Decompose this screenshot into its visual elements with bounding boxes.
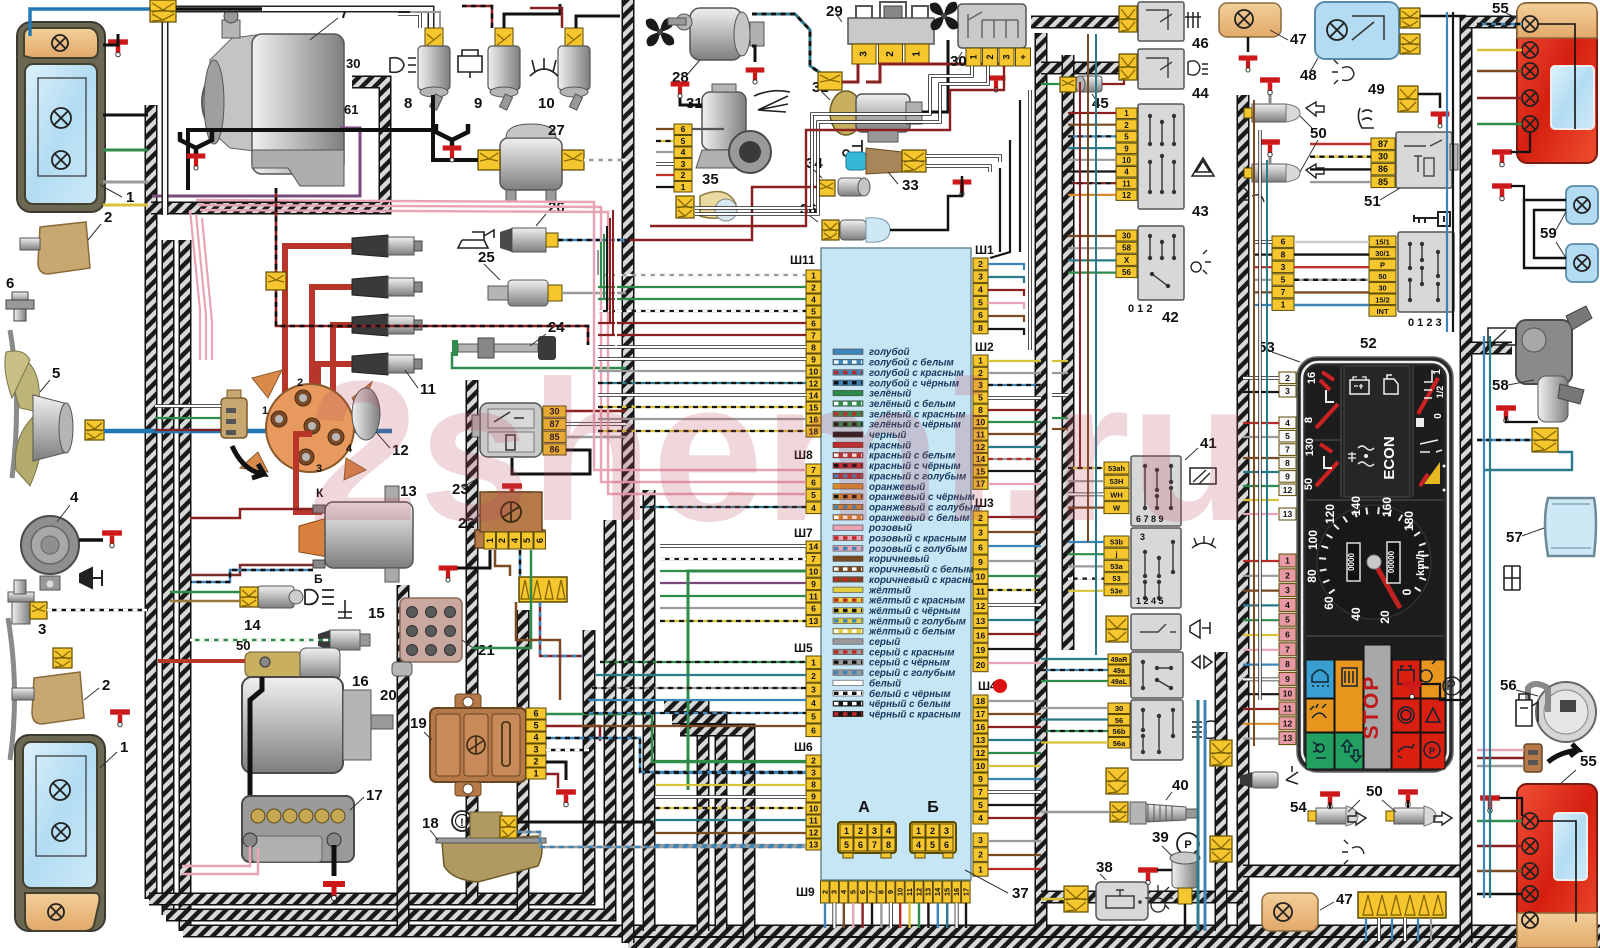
connector Ш9 pins [820,881,970,903]
svg-text:6: 6 [858,890,867,894]
svg-text:2: 2 [104,209,112,226]
svg-text:3: 3 [1002,54,1012,59]
ground 49 [1431,111,1450,128]
turn bulb 2 [48,904,64,920]
connector 35 [676,196,694,218]
svg-text:10: 10 [976,761,986,771]
svg-text:4: 4 [811,698,816,708]
icon hazard triangle [1192,158,1214,176]
ignition 52 pins [1369,236,1396,316]
wire [1243,634,1279,636]
wire teal Ш8 pin4 [640,506,806,508]
wire [1052,417,1068,419]
svg-text:13: 13 [1283,509,1293,519]
wire teal vertical right b [1489,336,1491,898]
wire 59 gnd [1511,186,1524,200]
svg-text:4: 4 [886,826,891,836]
wire headlight gray [103,181,148,184]
icon wiper switch [1190,468,1216,484]
svg-text:39: 39 [1152,829,1169,846]
ground mid right [1402,681,1422,699]
spark plug connector 33 [846,148,902,174]
distributor 12 [240,370,380,480]
wire [1243,693,1279,695]
svg-text:54: 54 [1290,799,1307,816]
svg-text:7: 7 [1285,644,1290,654]
icon rear wiper [1488,328,1516,345]
wire [988,360,1041,362]
wire 45 green [1041,83,1060,85]
wire teal pair down [1197,700,1200,931]
svg-text:16: 16 [952,888,961,896]
svg-text:15: 15 [368,605,385,622]
svg-text:4: 4 [978,813,983,823]
svg-text:16: 16 [976,631,986,641]
svg-text:37: 37 [1012,885,1029,902]
wire tail blue [1477,23,1522,26]
wire sensor10 black [576,16,620,28]
connector Ш1 pins [973,258,988,334]
svg-text:6: 6 [533,709,538,719]
wire pink bundle [196,200,806,470]
wire [1243,619,1279,621]
svg-text:85: 85 [1378,177,1388,187]
wire mid vertical c [517,610,530,915]
wire [1068,541,1104,543]
wire [988,765,1041,767]
svg-text:6: 6 [978,310,983,320]
svg-text:50: 50 [1303,478,1315,490]
svg-text:2: 2 [858,826,863,836]
wire right channel 2 [1062,55,1075,650]
wire [832,903,836,928]
wire [988,619,1041,621]
svg-text:61: 61 [344,102,358,117]
svg-text:1: 1 [533,769,538,779]
wire [988,446,1041,448]
wire [1068,590,1104,592]
svg-text:30: 30 [1115,704,1123,713]
wire relay51 [1310,143,1371,145]
wire [580,725,806,727]
svg-text:2: 2 [820,890,829,894]
warning lights [1306,636,1445,769]
wire [1243,589,1279,591]
turn signal switch box [1131,652,1183,698]
starter motor 16 [242,648,393,773]
svg-text:87: 87 [1378,139,1388,149]
wire 19 black [546,762,566,780]
wire [999,168,1001,252]
connector 27 right [562,150,584,170]
svg-text:7: 7 [872,840,877,850]
connector mid [1106,768,1128,794]
lamp 48 bulb [1327,20,1347,40]
instrument cluster 53 [1297,357,1453,772]
svg-text:1: 1 [969,54,979,59]
wire bottom run 1 [149,630,589,899]
wire green down [688,571,806,790]
svg-text:2shemi.ru: 2shemi.ru [308,340,1253,563]
wire distributor white [155,404,221,408]
wire 54a gnd [1329,802,1331,808]
wire [1243,575,1279,577]
svg-text:3: 3 [811,768,816,778]
wire 27 black [452,159,478,162]
wire [660,582,806,584]
svg-text:1 2 4 5: 1 2 4 5 [1136,596,1164,606]
wire [1068,247,1116,249]
svg-text:56: 56 [1122,268,1131,277]
wire ignition [1294,279,1369,281]
svg-text:13: 13 [976,616,986,626]
svg-text:1: 1 [1281,300,1286,310]
wire bundle risers Ш11 [598,202,616,347]
wire [918,903,920,928]
svg-text:2: 2 [811,283,816,293]
svg-text:5: 5 [1124,133,1129,142]
wire [1041,707,1108,709]
wire starter 50 red [158,659,245,663]
wire [1095,34,1097,655]
svg-text:42: 42 [1162,309,1179,326]
wire [1243,513,1279,515]
wire fuse drop [1391,918,1393,941]
svg-text:30: 30 [346,56,360,71]
svg-text:51: 51 [1364,193,1381,210]
svg-text:чёрный с белым: чёрный с белым [869,699,951,710]
headlamp bulb 2 high [50,780,70,800]
wire [1243,560,1279,562]
svg-text:6: 6 [944,840,949,850]
svg-text:49aL: 49aL [1111,679,1128,686]
wire [202,218,212,360]
spark plug 15 [318,630,370,650]
svg-text:ECON: ECON [1381,436,1398,479]
svg-text:2: 2 [681,170,686,180]
connector 29 inline [818,72,842,90]
connector inline alt [266,272,286,290]
icon horn small [1190,620,1210,638]
wire right channel 1 [1035,33,1048,931]
svg-text:Ш5: Ш5 [794,641,813,655]
icon oil can [458,230,494,248]
connector 33 [902,150,926,172]
wire center vertical 5 [680,730,749,943]
wire [908,903,910,928]
oil sensor 40 [1130,802,1198,824]
connector top left [150,0,176,22]
connector 41 lower pins [1104,536,1129,596]
wire 25 gray [562,292,626,295]
wire [1052,428,1068,430]
svg-text:5: 5 [1285,431,1290,441]
connector Ш6 pins [806,755,821,850]
svg-text:коричневый с красным: коричневый с красным [869,575,984,586]
svg-text:34: 34 [806,155,823,172]
svg-text:56: 56 [1500,677,1517,694]
svg-text:21: 21 [478,642,495,659]
wire center vertical 2 [643,490,656,931]
wire [988,516,1041,518]
wire 22 green down [472,550,531,648]
connector 42 pins [1116,230,1137,278]
svg-text:56: 56 [1115,716,1123,725]
wire [988,752,1041,754]
svg-text:55: 55 [1580,753,1597,770]
connector Ш3 pins [973,511,988,672]
icon dimmer [1145,885,1173,912]
ground 47 [1239,55,1258,72]
ECU harness legend block 37 [821,248,971,880]
wire sensor9 red [462,6,492,28]
icon horn 32 [843,140,862,156]
tail bulb y124 [1522,116,1538,132]
wire tail2 gnd [1499,798,1522,816]
icon arrow 50c [1434,812,1452,825]
wire 61 purple [152,128,360,196]
wire fuse down brown [516,602,560,700]
wire 39 black [1157,869,1172,872]
connector 49a pins [1108,654,1130,686]
wire [598,370,806,372]
wire [655,807,806,809]
wire [988,372,1041,374]
wire [598,393,806,397]
horn contact box [1131,614,1181,650]
svg-text:6: 6 [811,319,816,329]
wire [655,795,806,799]
connector 14 [240,587,258,607]
sensor 45 [1075,76,1102,92]
connector 43 pins [1116,108,1137,200]
wire 27 left black [433,130,478,160]
connector Ш2 pins [973,355,988,489]
wire [1243,457,1279,459]
svg-text:6: 6 [6,275,14,292]
svg-text:5: 5 [1281,275,1286,285]
icon headlight washer [390,58,416,73]
wire sensor 3 [47,609,148,612]
wire [598,322,806,324]
wire [1243,422,1279,424]
svg-text:17: 17 [366,787,383,804]
ignition coil 13 [299,486,413,582]
svg-text:29: 29 [826,3,843,20]
dome lamp 48 [1315,2,1399,59]
wire alternator excitation [276,188,588,345]
wire left vertical 3 [179,240,192,931]
wire black vertical right a [1452,12,1454,332]
svg-text:11: 11 [905,888,914,896]
wire starter battery [250,677,262,796]
ground 28 [746,67,765,84]
wire tail gnd [1511,132,1530,152]
wire coil B [190,565,313,575]
hazard switch 43 [1138,104,1184,209]
icon P 39 right [1443,677,1461,695]
svg-text:30: 30 [1122,232,1131,241]
svg-text:12: 12 [976,748,986,758]
wire 29 darkred 2 [866,40,1000,82]
relay 23 [472,403,542,457]
wire [1028,90,1032,350]
connector on channel b [1210,836,1232,862]
wire [1041,741,1108,743]
wire 45 darkred [1102,79,1124,84]
svg-text:1: 1 [1285,556,1290,566]
wire [988,603,1041,607]
svg-text:180: 180 [1402,511,1416,531]
switch 42 [1138,226,1184,300]
svg-text:33: 33 [902,177,919,194]
svg-text:48: 48 [1300,67,1317,84]
wire [1052,372,1068,374]
svg-text:8: 8 [978,323,983,333]
svg-text:140: 140 [1349,496,1363,516]
svg-text:3: 3 [830,890,839,894]
connector 45 [1060,77,1076,92]
svg-text:15/1: 15/1 [1375,237,1390,246]
svg-text:6: 6 [1281,237,1286,247]
svg-text:8: 8 [1303,417,1315,423]
svg-text:47: 47 [1336,891,1353,908]
wire ignition [1294,266,1369,268]
icon key [1414,212,1450,226]
wire wiper 58 stub [1466,342,1512,355]
svg-text:15: 15 [943,888,952,896]
wire [1243,376,1279,380]
connector block 21 [400,598,462,662]
wire fuse drop [1403,918,1407,941]
wire tail2 link [1538,821,1576,922]
wire [1068,480,1104,482]
svg-text:2: 2 [1124,121,1129,130]
wire [588,699,806,701]
svg-text:9: 9 [1124,144,1129,153]
wire headlight green [103,149,148,152]
wire 31 black [680,92,702,105]
sensor 14 [258,586,294,608]
horn 32 [830,91,922,142]
fuse block small [519,577,567,602]
relay 51 pins [1371,138,1395,188]
wire [598,382,806,384]
svg-text:13: 13 [809,840,819,850]
svg-text:3: 3 [681,159,686,169]
wire [655,819,806,821]
svg-text:17: 17 [976,709,986,719]
svg-text:18: 18 [422,815,439,832]
svg-text:12: 12 [914,888,923,896]
sensor 8 [418,28,450,110]
wire 28 black [752,46,755,62]
wire [598,357,806,361]
wire 23 gray [566,436,626,439]
connector 44 [1119,54,1137,80]
wire 29 darkred [842,64,858,82]
wiper motor 31 [696,84,771,173]
rotation arrow [232,446,264,478]
wire col31 red [656,174,674,176]
wire [1254,254,1272,256]
connector Ш11 pins [806,270,821,437]
svg-text:50: 50 [236,638,250,653]
svg-text:58: 58 [1122,244,1131,253]
wire [1243,391,1279,393]
tail light 55 top [1517,3,1597,163]
icon lamp rays 50 [1242,188,1264,202]
cluster connector white pins 2 [1279,417,1296,496]
svg-text:8: 8 [1285,458,1290,468]
connector 18 [500,816,517,838]
svg-text:9: 9 [1285,674,1290,684]
svg-text:49: 49 [1368,81,1385,98]
wire [988,545,1041,547]
wire 28 teal [752,14,822,74]
svg-text:9: 9 [886,890,895,894]
tail bulb y98 [1522,90,1538,106]
wire horn to ground [79,538,103,542]
wire [988,560,1041,562]
ground tail bottom [1480,795,1500,813]
sensor 3 [8,580,34,624]
svg-text:13: 13 [1283,733,1293,743]
connector 56 [1524,744,1542,772]
ground 50a [1260,77,1280,95]
wire [988,329,1024,335]
wire 47 black [1247,37,1250,52]
icon washer jet [1192,536,1216,548]
wire [955,903,959,928]
ground 50 bottom [1398,789,1418,807]
svg-text:жёлтый с красным: жёлтый с красным [868,596,966,607]
ECU 19 pins [526,708,546,779]
fuel level warning icon [452,811,472,831]
connector 56 pins [1108,703,1130,748]
headlamp bulb high [51,108,71,128]
wire 33 white [926,156,1000,162]
svg-text:Ш6: Ш6 [794,740,813,754]
svg-text:9: 9 [811,579,816,589]
tail bulb y71 [1522,63,1538,79]
svg-text:2: 2 [297,377,303,389]
wire [1243,649,1279,651]
wire fuse drop [1377,918,1381,941]
svg-text:40: 40 [1349,607,1363,621]
wire 22 ground [457,550,490,568]
wire headlight yellow [103,204,148,207]
wire [988,470,1041,472]
wire sensor10 red [530,8,562,28]
svg-text:2: 2 [102,677,110,694]
tachometer gauge [1303,366,1341,497]
svg-text:15/2: 15/2 [1375,295,1390,304]
wire [1254,291,1272,293]
wire [1068,272,1116,274]
svg-text:1: 1 [811,271,816,281]
icon arrow 50b [1306,164,1324,178]
svg-text:4: 4 [811,295,816,305]
wire [871,903,873,928]
svg-text:5: 5 [844,840,849,850]
svg-text:3: 3 [978,272,983,282]
pillar lamp 50a [1244,86,1300,122]
svg-text:86: 86 [1378,164,1388,174]
svg-text:120: 120 [1323,504,1337,524]
icon lamp 44 [1188,61,1208,75]
relay 30 pins [966,48,1031,66]
